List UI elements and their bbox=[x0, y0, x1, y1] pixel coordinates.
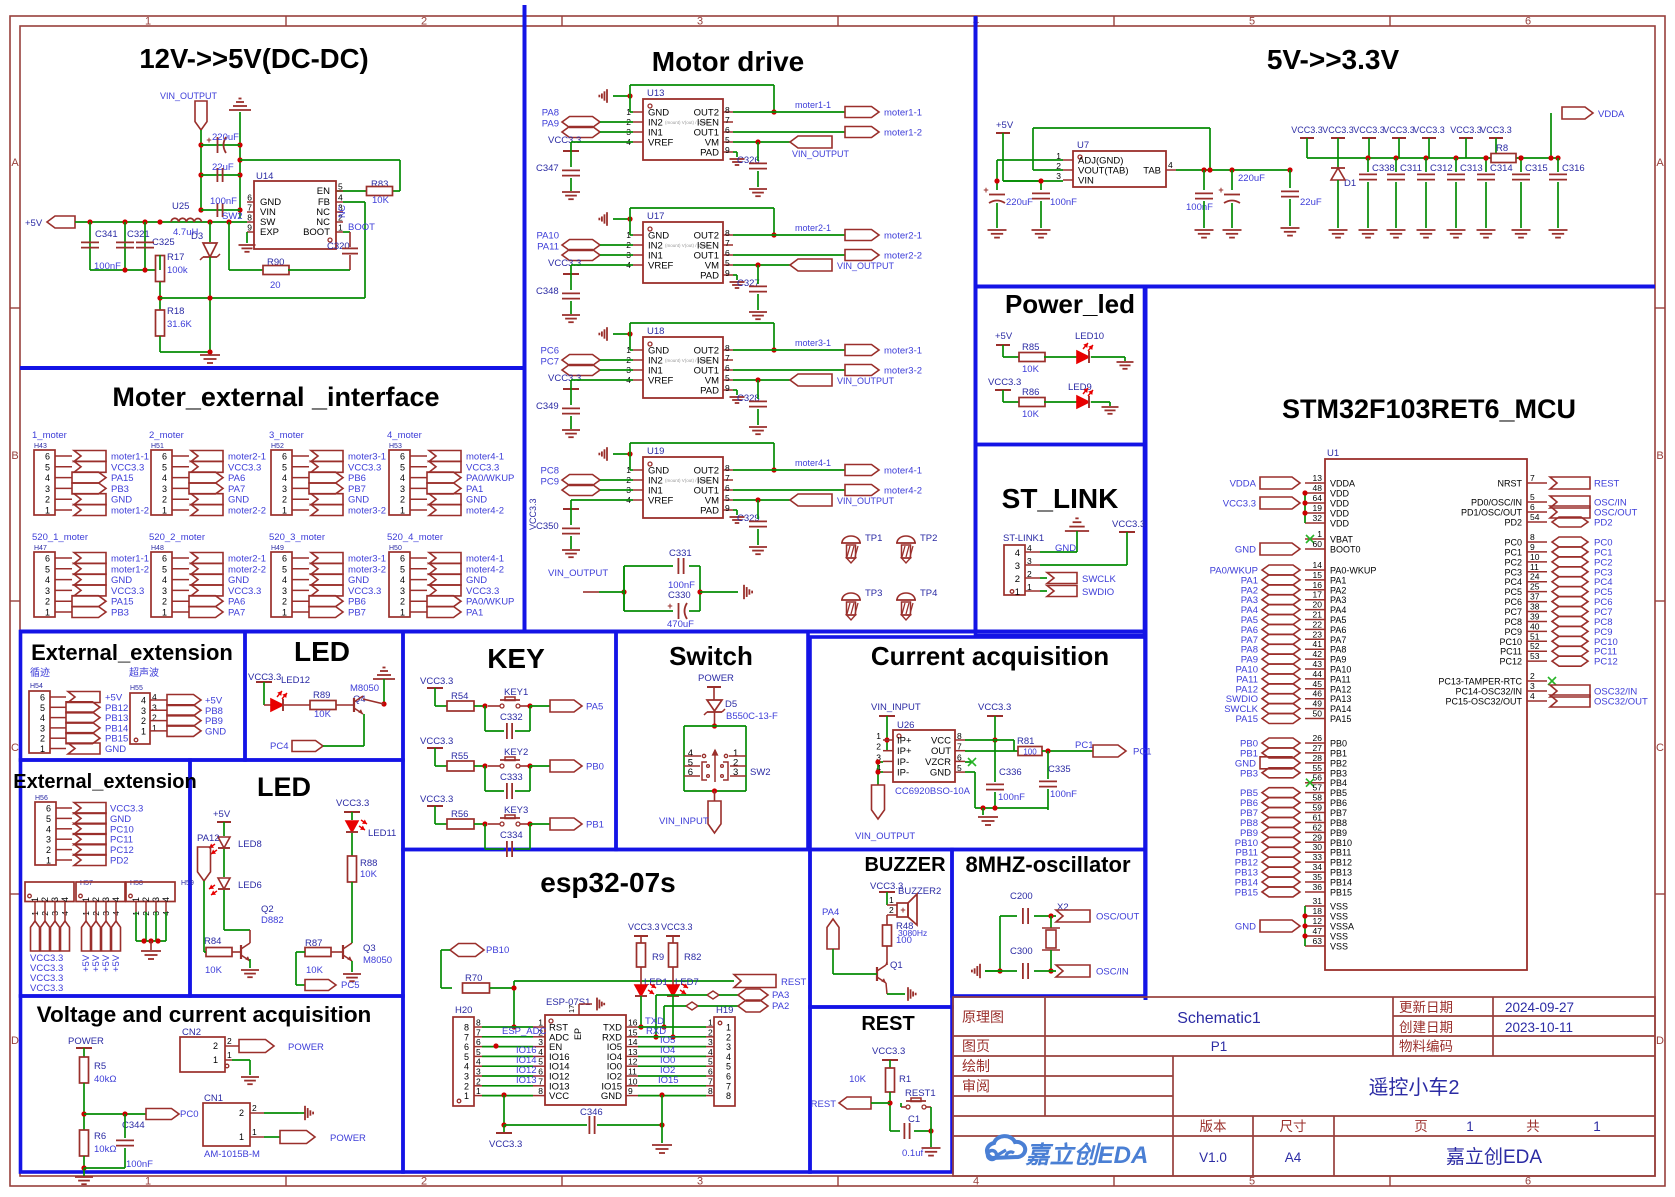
svg-text:VCC3.3: VCC3.3 bbox=[489, 1139, 522, 1150]
ground EXP bbox=[246, 232, 248, 243]
svg-text:4: 4 bbox=[46, 824, 51, 834]
svg-text:520_2_moter: 520_2_moter bbox=[149, 532, 205, 543]
svg-text:moter2-2: moter2-2 bbox=[884, 251, 922, 262]
svg-text:SWCLK: SWCLK bbox=[1082, 574, 1116, 585]
svg-text:C315: C315 bbox=[1525, 163, 1548, 174]
svg-text:100nF: 100nF bbox=[1050, 789, 1077, 800]
port PB1 bbox=[550, 818, 582, 830]
row ticks left/right bbox=[10, 307, 20, 309]
test point TP4 bbox=[897, 593, 915, 600]
svg-text:+5V: +5V bbox=[25, 218, 43, 229]
svg-text:PB7: PB7 bbox=[1330, 808, 1347, 818]
External_extension lower box bbox=[21, 760, 191, 996]
svg-text:3: 3 bbox=[151, 897, 161, 902]
esp32 box bbox=[403, 850, 810, 1173]
svg-text:moter1-2: moter1-2 bbox=[884, 128, 922, 139]
wire VREF to cap bbox=[571, 264, 633, 266]
svg-text:9: 9 bbox=[725, 383, 730, 393]
svg-text:26: 26 bbox=[1313, 733, 1323, 743]
PD pins bbox=[1527, 501, 1547, 503]
svg-text:C349: C349 bbox=[536, 401, 559, 412]
wire FB feedback bbox=[159, 282, 161, 310]
svg-text:5: 5 bbox=[725, 373, 730, 383]
svg-text:PA0-WKUP: PA0-WKUP bbox=[1330, 566, 1376, 576]
svg-text:moter2-2: moter2-2 bbox=[228, 506, 266, 517]
svg-text:VCC3.3: VCC3.3 bbox=[348, 462, 381, 473]
svg-text:45: 45 bbox=[1313, 679, 1323, 689]
svg-text:8: 8 bbox=[464, 1023, 469, 1033]
svg-text:绘制: 绘制 bbox=[962, 1058, 990, 1074]
svg-text:PA4: PA4 bbox=[822, 907, 839, 918]
svg-text:4: 4 bbox=[538, 1047, 543, 1057]
svg-text:56: 56 bbox=[1313, 773, 1323, 783]
svg-text:M8050: M8050 bbox=[350, 683, 379, 694]
svg-text:BOOT: BOOT bbox=[348, 222, 375, 233]
svg-text:R89: R89 bbox=[313, 690, 330, 701]
ground PAD bbox=[733, 509, 737, 511]
wires block3 to ground bbox=[135, 912, 137, 941]
wire OUT1 to port bbox=[733, 369, 845, 371]
svg-text:42: 42 bbox=[1313, 649, 1323, 659]
svg-text:6: 6 bbox=[1525, 1176, 1531, 1188]
svg-text:5: 5 bbox=[1249, 1176, 1255, 1188]
svg-text:3: 3 bbox=[162, 586, 167, 596]
svg-text:PA2: PA2 bbox=[1330, 585, 1346, 595]
svg-text:VIN_INPUT: VIN_INPUT bbox=[871, 702, 921, 713]
svg-text:4: 4 bbox=[162, 575, 167, 585]
ground Q1 sideways bbox=[886, 983, 887, 994]
capacitor 220uF left bbox=[989, 194, 1005, 196]
port PB0 bbox=[550, 760, 582, 772]
svg-text:LED1: LED1 bbox=[644, 977, 668, 988]
svg-text:8: 8 bbox=[476, 1018, 481, 1028]
port moter1-2 bbox=[845, 127, 879, 138]
svg-text:+: + bbox=[983, 185, 988, 195]
svg-text:VCC3.3: VCC3.3 bbox=[1322, 125, 1354, 135]
svg-text:PC1: PC1 bbox=[1133, 747, 1151, 758]
port POWER (CN1) bbox=[280, 1131, 315, 1144]
svg-text:EP: EP bbox=[573, 1028, 583, 1040]
svg-text:moter3-1: moter3-1 bbox=[348, 452, 386, 463]
svg-text:5: 5 bbox=[726, 1062, 731, 1072]
svg-text:6: 6 bbox=[725, 483, 730, 493]
ports for H48 bbox=[191, 553, 223, 564]
svg-text:POWER: POWER bbox=[330, 1133, 366, 1144]
section divider horizontal y=631 (main) bbox=[20, 630, 1145, 634]
svg-text:PB6: PB6 bbox=[1330, 798, 1347, 808]
port moter2-1 bbox=[845, 230, 879, 241]
wire ADJ to gnd caps bbox=[997, 159, 1063, 161]
port VIN_OUTPUT flag bbox=[790, 494, 832, 506]
svg-text:2: 2 bbox=[421, 1176, 427, 1188]
svg-text:2: 2 bbox=[476, 1076, 481, 1086]
svg-text:KEY: KEY bbox=[487, 643, 545, 674]
wire OUT2 to port bbox=[733, 111, 845, 113]
svg-text:VCC3.3: VCC3.3 bbox=[1223, 499, 1256, 510]
svg-text:PA15: PA15 bbox=[111, 597, 134, 608]
svg-text:+: + bbox=[667, 601, 672, 611]
svg-text:1: 1 bbox=[1593, 1119, 1601, 1134]
svg-text:3: 3 bbox=[726, 1042, 731, 1052]
svg-text:VDDA: VDDA bbox=[1598, 109, 1625, 120]
wire PB10 to R70 bbox=[441, 949, 450, 951]
svg-text:PA1: PA1 bbox=[1330, 575, 1346, 585]
svg-text:VCC3.3: VCC3.3 bbox=[336, 798, 369, 809]
wire VM to VIN_OUTPUT bbox=[733, 141, 790, 143]
svg-text:6: 6 bbox=[538, 1067, 543, 1077]
wire OUT1 to port bbox=[733, 489, 845, 491]
svg-text:1: 1 bbox=[282, 608, 287, 618]
svg-text:VCC3.3: VCC3.3 bbox=[420, 736, 453, 747]
svg-text:VCC3.3: VCC3.3 bbox=[988, 377, 1021, 388]
svg-text:VDD: VDD bbox=[1330, 499, 1350, 509]
svg-text:VCC: VCC bbox=[549, 1091, 569, 1102]
svg-text:100nF: 100nF bbox=[998, 792, 1025, 803]
ground flag left of U18 bbox=[606, 327, 608, 341]
svg-text:C314: C314 bbox=[1490, 163, 1513, 174]
svg-text:VCC3.3: VCC3.3 bbox=[628, 922, 660, 932]
svg-text:5: 5 bbox=[45, 564, 50, 574]
svg-text:1: 1 bbox=[889, 895, 894, 905]
svg-text:53: 53 bbox=[1530, 651, 1540, 661]
svg-text:H48: H48 bbox=[151, 545, 164, 552]
svg-text:7: 7 bbox=[957, 742, 962, 752]
ground below C350 bbox=[562, 549, 580, 551]
ST_LINK box bbox=[976, 445, 1145, 636]
svg-text:H52: H52 bbox=[271, 443, 284, 450]
svg-text:H59: H59 bbox=[181, 880, 194, 887]
svg-text:moter2-1: moter2-1 bbox=[228, 554, 266, 565]
svg-text:29: 29 bbox=[1313, 832, 1323, 842]
svg-text:PC8: PC8 bbox=[1504, 617, 1522, 627]
ground below C327 bbox=[749, 311, 767, 313]
svg-text:M8050: M8050 bbox=[363, 955, 392, 966]
regulator U7 bbox=[1073, 151, 1166, 187]
svg-text:4: 4 bbox=[111, 897, 121, 902]
svg-text:12V->>5V(DC-DC): 12V->>5V(DC-DC) bbox=[139, 43, 368, 74]
column ticks top/bottom bbox=[285, 16, 287, 26]
ground below C349 bbox=[562, 429, 580, 431]
svg-text:6: 6 bbox=[400, 554, 405, 564]
svg-text:PB0: PB0 bbox=[586, 762, 604, 773]
svg-text:EXP: EXP bbox=[260, 227, 279, 238]
wire OUT1 to port bbox=[733, 131, 845, 133]
svg-text:IO15: IO15 bbox=[658, 1075, 679, 1086]
svg-text:VDD: VDD bbox=[1330, 509, 1350, 519]
wire top loop bbox=[629, 85, 631, 112]
svg-text:6: 6 bbox=[282, 554, 287, 564]
svg-text:H56: H56 bbox=[35, 795, 48, 802]
svg-text:GND: GND bbox=[228, 575, 249, 586]
svg-text:39: 39 bbox=[1530, 611, 1540, 621]
svg-text:220uF: 220uF bbox=[212, 132, 239, 143]
svg-text:52: 52 bbox=[1530, 641, 1540, 651]
driver IC U18 bbox=[643, 337, 723, 398]
svg-text:1: 1 bbox=[213, 1055, 218, 1065]
svg-text:LED: LED bbox=[294, 636, 350, 667]
svg-text:VCC3.3: VCC3.3 bbox=[548, 258, 581, 269]
svg-text:LED8: LED8 bbox=[238, 839, 262, 850]
wire VM to VIN_OUTPUT bbox=[733, 379, 790, 381]
svg-text:2: 2 bbox=[400, 495, 405, 505]
KEY box bbox=[403, 632, 616, 850]
svg-text:P1: P1 bbox=[1211, 1039, 1228, 1054]
svg-text:3: 3 bbox=[697, 1176, 703, 1188]
wire top loop bbox=[629, 443, 631, 470]
svg-text:H20: H20 bbox=[455, 1005, 472, 1016]
wire VCC to buzzer pin1 bbox=[886, 892, 888, 905]
ground PAD bbox=[733, 151, 737, 153]
svg-text:External_extension: External_extension bbox=[13, 771, 196, 793]
wire PC4 to Q4 emitter bbox=[323, 745, 364, 747]
svg-text:2: 2 bbox=[46, 845, 51, 855]
svg-text:PA0/WKUP: PA0/WKUP bbox=[466, 597, 514, 608]
svg-text:35: 35 bbox=[1313, 872, 1323, 882]
svg-text:5: 5 bbox=[40, 703, 45, 713]
svg-text:PC0: PC0 bbox=[180, 1109, 198, 1120]
svg-text:10kΩ: 10kΩ bbox=[94, 1144, 116, 1155]
svg-text:BOOT: BOOT bbox=[303, 227, 330, 238]
svg-text:6: 6 bbox=[1530, 502, 1535, 512]
driver IC U19 bbox=[643, 457, 723, 518]
svg-text:1: 1 bbox=[1015, 587, 1020, 598]
ports for H52 bbox=[311, 451, 343, 462]
svg-text:5: 5 bbox=[725, 135, 730, 145]
svg-text:18: 18 bbox=[1313, 906, 1323, 916]
svg-text:38: 38 bbox=[1530, 602, 1540, 612]
svg-text:4: 4 bbox=[464, 1062, 469, 1072]
svg-text:20: 20 bbox=[270, 280, 281, 291]
svg-text:PB14: PB14 bbox=[1330, 878, 1352, 888]
ports for H50 bbox=[429, 553, 461, 564]
svg-text:5: 5 bbox=[957, 763, 962, 773]
svg-text:3: 3 bbox=[282, 484, 287, 494]
wire PA12 to R84 bbox=[203, 881, 205, 952]
svg-text:moter3-2: moter3-2 bbox=[348, 506, 386, 517]
svg-text:48: 48 bbox=[1313, 483, 1323, 493]
svg-text:54: 54 bbox=[1530, 512, 1540, 522]
svg-text:VCC3.3: VCC3.3 bbox=[548, 373, 581, 384]
svg-text:PA5: PA5 bbox=[1330, 615, 1346, 625]
svg-text:PA3: PA3 bbox=[1330, 595, 1346, 605]
svg-text:7: 7 bbox=[476, 1027, 481, 1037]
svg-text:2: 2 bbox=[252, 1103, 257, 1113]
port PC0 bbox=[146, 1109, 179, 1120]
svg-text:PC8: PC8 bbox=[541, 466, 559, 477]
svg-text:1: 1 bbox=[162, 608, 167, 618]
svg-text:C350: C350 bbox=[536, 521, 559, 532]
svg-text:R84: R84 bbox=[204, 936, 221, 947]
svg-text:40: 40 bbox=[1530, 621, 1540, 631]
svg-text:7: 7 bbox=[538, 1076, 543, 1086]
svg-text:37: 37 bbox=[1530, 592, 1540, 602]
ground top right bbox=[239, 112, 241, 218]
svg-text:SWDIO: SWDIO bbox=[1082, 587, 1114, 598]
pin PC13 with X bbox=[1527, 680, 1547, 682]
svg-text:3: 3 bbox=[538, 1037, 543, 1047]
svg-text:VCC3.3: VCC3.3 bbox=[111, 586, 144, 597]
svg-text:+: + bbox=[900, 905, 905, 915]
svg-text:VREF: VREF bbox=[648, 496, 674, 507]
svg-text:PB3: PB3 bbox=[1240, 768, 1258, 779]
svg-text:1: 1 bbox=[145, 1176, 151, 1188]
svg-text:VCC3.3: VCC3.3 bbox=[420, 794, 453, 805]
BUZZER box bbox=[810, 850, 952, 1008]
svg-text:PA15: PA15 bbox=[1235, 714, 1258, 725]
svg-text:6: 6 bbox=[400, 452, 405, 462]
svg-text:2: 2 bbox=[1015, 574, 1020, 585]
test point TP2 bbox=[897, 536, 915, 543]
driver IC U13 bbox=[643, 99, 723, 160]
svg-text:C327: C327 bbox=[737, 278, 760, 289]
capacitor 100nF bbox=[201, 209, 240, 211]
svg-text:5: 5 bbox=[725, 493, 730, 503]
svg-text:PB6: PB6 bbox=[348, 597, 366, 608]
svg-text:U17: U17 bbox=[647, 211, 664, 222]
port VIN_OUTPUT flag bbox=[790, 259, 832, 271]
svg-text:PB4: PB4 bbox=[1330, 778, 1347, 788]
svg-text:R82: R82 bbox=[684, 952, 701, 963]
svg-text:PA2: PA2 bbox=[772, 1001, 789, 1012]
ground PAD bbox=[733, 274, 737, 276]
svg-text:POWER: POWER bbox=[288, 1042, 324, 1053]
svg-text:U7: U7 bbox=[1077, 140, 1089, 151]
svg-text:Power_led: Power_led bbox=[1005, 289, 1135, 319]
svg-text:PA7: PA7 bbox=[228, 608, 245, 619]
wire VM to VIN_OUTPUT bbox=[733, 499, 790, 501]
svg-text:VREF: VREF bbox=[648, 376, 674, 387]
ports for H51 bbox=[191, 451, 223, 462]
svg-text:C333: C333 bbox=[500, 772, 523, 783]
svg-text:27: 27 bbox=[1313, 743, 1323, 753]
svg-text:C334: C334 bbox=[500, 830, 523, 841]
ground left2 bbox=[1032, 229, 1051, 231]
svg-text:GND: GND bbox=[205, 726, 226, 737]
svg-text:VREF: VREF bbox=[648, 261, 674, 272]
svg-text:6: 6 bbox=[476, 1037, 481, 1047]
svg-text:34: 34 bbox=[1313, 862, 1323, 872]
wire GND pin bbox=[965, 771, 975, 773]
wires H20 to module bbox=[482, 1026, 533, 1028]
svg-text:6: 6 bbox=[162, 554, 167, 564]
svg-text:1: 1 bbox=[400, 608, 405, 618]
svg-text:PA8: PA8 bbox=[1330, 645, 1346, 655]
svg-text:moter2-2: moter2-2 bbox=[228, 564, 266, 575]
svg-text:TP1: TP1 bbox=[865, 533, 882, 544]
svg-text:REST: REST bbox=[861, 1013, 914, 1035]
svg-text:24: 24 bbox=[1530, 572, 1540, 582]
svg-text:GND: GND bbox=[601, 1091, 622, 1102]
svg-text:A: A bbox=[1656, 157, 1664, 169]
resistor R82 bbox=[672, 936, 674, 944]
svg-text:Moter_external _interface: Moter_external _interface bbox=[112, 382, 439, 412]
svg-text:PA12: PA12 bbox=[1330, 684, 1351, 694]
svg-text:C332: C332 bbox=[500, 712, 523, 723]
svg-text:PC10: PC10 bbox=[110, 824, 134, 835]
svg-text:100nF: 100nF bbox=[210, 196, 237, 207]
svg-text:VIN_OUTPUT: VIN_OUTPUT bbox=[837, 496, 895, 506]
svg-text:PA9: PA9 bbox=[542, 119, 559, 130]
power flag VCC3.3 bottom bbox=[503, 1125, 505, 1133]
rail 3.3V bbox=[1307, 157, 1491, 159]
title block frame bbox=[953, 997, 1655, 1176]
svg-text:PC12: PC12 bbox=[1594, 657, 1618, 668]
svg-text:30: 30 bbox=[1313, 842, 1323, 852]
svg-text:PA15: PA15 bbox=[111, 473, 134, 484]
svg-text:Q2: Q2 bbox=[261, 904, 274, 915]
svg-text:4: 4 bbox=[141, 696, 146, 706]
svg-text:C341: C341 bbox=[95, 229, 118, 240]
svg-text:moter2-1: moter2-1 bbox=[228, 452, 266, 463]
svg-text:PA6: PA6 bbox=[228, 597, 245, 608]
wire CN1 pin2 to ground bbox=[264, 1112, 298, 1114]
svg-text:220uF: 220uF bbox=[1238, 173, 1265, 184]
svg-text:PA5: PA5 bbox=[586, 702, 603, 713]
svg-text:moter4-2: moter4-2 bbox=[466, 564, 504, 575]
svg-text:H53: H53 bbox=[389, 443, 402, 450]
svg-text:57: 57 bbox=[1313, 783, 1323, 793]
svg-text:VCC3.3: VCC3.3 bbox=[1353, 125, 1385, 135]
svg-text:IP+: IP+ bbox=[897, 746, 912, 757]
svg-text:3: 3 bbox=[141, 706, 146, 716]
svg-text:D: D bbox=[11, 1035, 19, 1047]
svg-text:C335: C335 bbox=[1048, 764, 1071, 775]
svg-text:U26: U26 bbox=[897, 720, 914, 731]
svg-text:PA3: PA3 bbox=[772, 990, 789, 1001]
svg-text:PC2: PC2 bbox=[1504, 557, 1522, 567]
svg-text:moter3-2: moter3-2 bbox=[884, 366, 922, 377]
X mark VZCR bbox=[965, 761, 972, 763]
svg-text:VIN_OUTPUT: VIN_OUTPUT bbox=[160, 91, 218, 101]
svg-text:ST_LINK: ST_LINK bbox=[1002, 483, 1119, 514]
svg-text:PB13: PB13 bbox=[1330, 868, 1352, 878]
svg-text:PB3: PB3 bbox=[111, 484, 129, 495]
driver IC U17 bbox=[643, 222, 723, 283]
svg-text:Q3: Q3 bbox=[363, 943, 376, 954]
svg-text:Motor drive: Motor drive bbox=[652, 46, 804, 77]
svg-text:U25: U25 bbox=[172, 201, 189, 212]
svg-text:PC11: PC11 bbox=[110, 835, 133, 846]
pin BOOT0 bbox=[1305, 548, 1325, 550]
capacitor 100nF out bbox=[1203, 170, 1205, 190]
svg-text:PB1: PB1 bbox=[1330, 748, 1347, 758]
svg-text:PA8: PA8 bbox=[542, 108, 559, 119]
svg-text:2023-10-11: 2023-10-11 bbox=[1505, 1020, 1573, 1035]
svg-text:9: 9 bbox=[628, 1086, 633, 1096]
ground bottom bbox=[75, 1176, 93, 1178]
svg-text:C: C bbox=[1656, 742, 1664, 754]
svg-text:13: 13 bbox=[628, 1047, 638, 1057]
svg-text:2: 2 bbox=[40, 897, 50, 902]
svg-text:6: 6 bbox=[708, 1067, 713, 1077]
svg-text:PA7: PA7 bbox=[228, 484, 245, 495]
svg-text:6: 6 bbox=[46, 804, 51, 814]
svg-text:31: 31 bbox=[1313, 896, 1323, 906]
svg-text:A4: A4 bbox=[1285, 1150, 1302, 1165]
svg-text:PC7: PC7 bbox=[1504, 607, 1522, 617]
svg-text:47: 47 bbox=[1313, 926, 1323, 936]
svg-text:D3: D3 bbox=[191, 231, 203, 242]
svg-text:4: 4 bbox=[282, 473, 287, 483]
svg-text:2: 2 bbox=[162, 597, 167, 607]
svg-text:moter2-1: moter2-1 bbox=[884, 231, 922, 242]
PB pins bbox=[1305, 742, 1325, 744]
svg-text:31.6K: 31.6K bbox=[167, 319, 192, 330]
svg-text:C321: C321 bbox=[127, 229, 150, 240]
port moter1-1 bbox=[845, 107, 879, 118]
svg-text:2: 2 bbox=[40, 734, 45, 744]
svg-text:49: 49 bbox=[1313, 699, 1323, 709]
